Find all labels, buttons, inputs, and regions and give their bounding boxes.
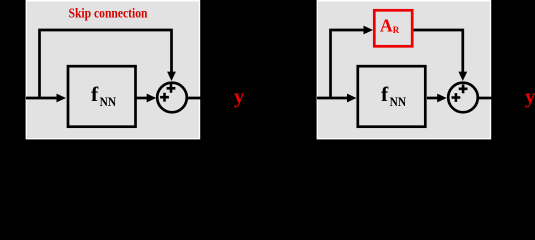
svg-text:f: f xyxy=(91,82,99,106)
svg-text:A: A xyxy=(380,16,393,36)
svg-text:Skip connection: Skip connection xyxy=(69,6,148,21)
svg-text:y: y xyxy=(234,86,245,108)
svg-text:f: f xyxy=(381,82,389,106)
svg-text:y: y xyxy=(525,86,535,108)
svg-text:NN: NN xyxy=(100,95,117,109)
svg-text:NN: NN xyxy=(390,95,407,109)
svg-text:R: R xyxy=(393,25,400,35)
